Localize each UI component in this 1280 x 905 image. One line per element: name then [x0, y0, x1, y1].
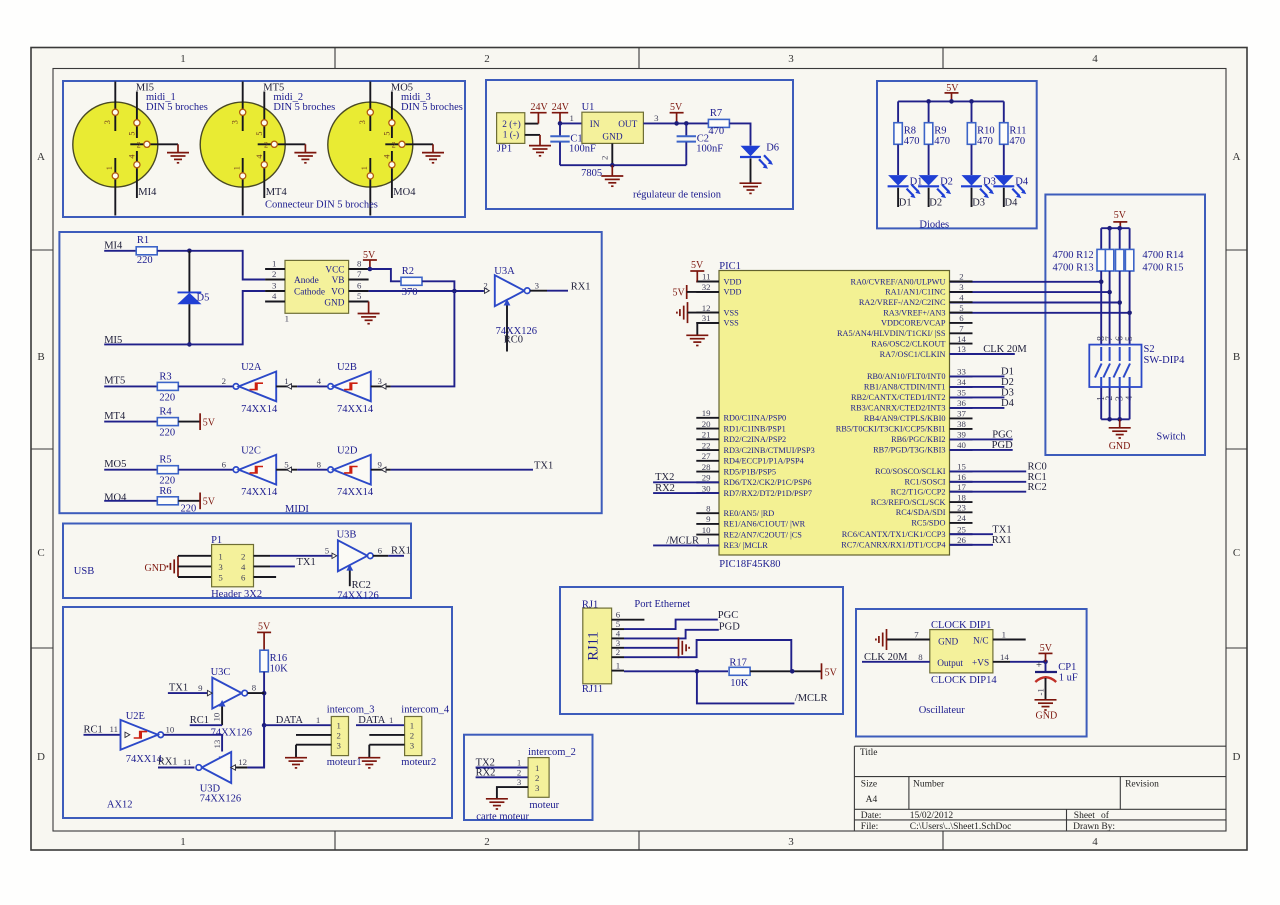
svg-text:2: 2 — [517, 767, 521, 777]
svg-text:3: 3 — [218, 562, 223, 572]
svg-text:intercom_3: intercom_3 — [327, 704, 375, 715]
svg-text:1: 1 — [285, 314, 289, 324]
svg-text:2: 2 — [137, 141, 141, 150]
svg-text:RB2/CANTX/CTED1/INT2: RB2/CANTX/CTED1/INT2 — [851, 393, 946, 402]
svg-text:AX12: AX12 — [107, 800, 133, 811]
svg-text:4: 4 — [1092, 53, 1098, 65]
buffer U3C 74XX126 — [198, 667, 264, 739]
svg-text:DIN 5 broches: DIN 5 broches — [146, 102, 208, 113]
wire RC1 to U2E — [84, 734, 125, 736]
svg-text:RX2: RX2 — [655, 483, 675, 494]
svg-text:VCC: VCC — [325, 266, 344, 276]
wire — [1109, 271, 1111, 345]
capacitor C2 — [684, 121, 689, 126]
svg-text:RE2/AN7/C2OUT/ |CS: RE2/AN7/C2OUT/ |CS — [724, 530, 803, 539]
svg-text:RA3/VREF+/AN3: RA3/VREF+/AN3 — [883, 308, 945, 317]
wire pin14 to 5V and CP1 — [1010, 661, 1046, 663]
resistor R10 — [967, 123, 994, 147]
junction at C1 — [558, 121, 563, 126]
svg-text:470: 470 — [977, 136, 993, 147]
svg-text:DIN 5 broches: DIN 5 broches — [273, 102, 335, 113]
svg-text:5: 5 — [255, 132, 264, 136]
svg-text:5V: 5V — [825, 668, 838, 679]
wire R4 to 5V bar — [178, 421, 200, 423]
svg-text:3: 3 — [517, 777, 522, 787]
svg-text:Header 3X2: Header 3X2 — [211, 589, 262, 600]
svg-text:5: 5 — [959, 303, 964, 313]
svg-text:4: 4 — [241, 562, 246, 572]
svg-text:RC2: RC2 — [1028, 482, 1047, 493]
ground rotated at pin7 — [876, 629, 887, 650]
svg-text:/MCLR: /MCLR — [795, 693, 828, 704]
svg-text:5V: 5V — [203, 497, 216, 508]
svg-text:D3: D3 — [1001, 388, 1014, 399]
svg-text:DIN 5 broches: DIN 5 broches — [401, 102, 463, 113]
svg-text:5V: 5V — [1114, 210, 1127, 221]
svg-text:RC0/SOSCO/SCLKI: RC0/SOSCO/SCLKI — [875, 467, 946, 476]
svg-text:MI4: MI4 — [104, 240, 123, 251]
svg-text:1: 1 — [232, 166, 241, 170]
resistor R6 — [157, 486, 196, 515]
svg-text:MT4: MT4 — [104, 411, 126, 422]
title block texts — [860, 748, 1159, 832]
svg-text:31: 31 — [702, 313, 711, 323]
section box: Port Ethernet — [560, 587, 843, 714]
svg-text:220: 220 — [137, 255, 153, 266]
resistor R1 — [136, 235, 157, 266]
svg-text:74XX126: 74XX126 — [337, 590, 378, 601]
wire MT5 to R3 — [104, 385, 157, 387]
DIN connector midi_3 — [328, 82, 433, 216]
svg-text:MT4: MT4 — [266, 187, 288, 198]
svg-text:U2B: U2B — [337, 362, 357, 373]
svg-text:5: 5 — [383, 132, 392, 136]
svg-text:6: 6 — [357, 281, 362, 291]
svg-text:220: 220 — [159, 392, 175, 403]
svg-text:GND: GND — [938, 637, 958, 647]
svg-text:SW-DIP4: SW-DIP4 — [1144, 355, 1186, 366]
wire — [1129, 271, 1131, 345]
svg-text:RX1: RX1 — [992, 535, 1012, 546]
wire net /MCLR — [653, 544, 719, 546]
svg-text:10K: 10K — [270, 663, 289, 674]
svg-text:Switch: Switch — [1156, 432, 1186, 443]
svg-text:RE3/ |MCLR: RE3/ |MCLR — [724, 541, 769, 550]
wire U2C to U2D — [297, 469, 328, 471]
svg-text:RD0/C1INA/PSP0: RD0/C1INA/PSP0 — [724, 414, 787, 423]
inverter U2C 74XX14 — [222, 446, 298, 499]
wire RX1 to U3D out — [158, 767, 195, 769]
svg-text:21: 21 — [702, 430, 711, 440]
wire VO node down to U2B — [391, 291, 455, 386]
wire MT4 to R4 — [104, 421, 157, 423]
wire — [1119, 387, 1121, 419]
svg-text:4700 R13: 4700 R13 — [1053, 263, 1094, 274]
power port 24V no.1 — [530, 102, 548, 123]
oscillator CLOCK DIP14 — [887, 630, 1026, 673]
svg-text:VB: VB — [332, 276, 345, 286]
resistor labels 4700 R12-R15 — [1053, 250, 1185, 274]
wire U3A out to RX1 — [547, 290, 568, 292]
svg-text:P1: P1 — [211, 535, 222, 546]
svg-text:23: 23 — [957, 503, 966, 513]
svg-text:GND: GND — [1036, 711, 1058, 722]
wire MI5 to optocoupler pin3 — [104, 291, 265, 344]
svg-text:4: 4 — [317, 376, 322, 386]
svg-text:2 (+): 2 (+) — [502, 119, 520, 130]
svg-text:Date:: Date: — [861, 811, 882, 821]
zone ticks top — [335, 48, 943, 69]
svg-text:24V: 24V — [552, 102, 570, 113]
wire R1 to optocoupler pin2 — [157, 251, 265, 280]
svg-text:moteur2: moteur2 — [401, 757, 436, 768]
wire CLK 20M to pin8 — [862, 661, 930, 663]
svg-text:30: 30 — [702, 483, 711, 493]
svg-text:GND: GND — [1109, 441, 1131, 452]
LED D4 — [993, 175, 1029, 198]
svg-text:74XX14: 74XX14 — [241, 404, 278, 415]
svg-text:Revision: Revision — [1125, 780, 1159, 790]
svg-text:40: 40 — [957, 440, 966, 450]
wire net RC2 — [950, 491, 1027, 493]
resistor R5 — [157, 455, 178, 487]
svg-text:RJ1: RJ1 — [582, 600, 598, 611]
svg-text:midi_2: midi_2 — [273, 92, 303, 103]
wire net PGC — [950, 438, 1013, 440]
power port 5V — [945, 83, 960, 101]
svg-text:PGD: PGD — [992, 440, 1013, 451]
buffer U3A 74XX126 — [483, 266, 547, 352]
svg-text:U3B: U3B — [337, 530, 357, 541]
wire D6 to ground — [750, 158, 752, 183]
svg-text:Oscillateur: Oscillateur — [919, 705, 966, 716]
svg-text:2: 2 — [264, 141, 268, 150]
svg-text:1: 1 — [570, 113, 574, 123]
svg-text:1: 1 — [389, 715, 393, 725]
wire — [1003, 188, 1005, 207]
section box: Switch — [1045, 195, 1205, 456]
svg-text:35: 35 — [957, 388, 966, 398]
wire MO5 to R5 — [104, 469, 157, 471]
header intercom_2 — [510, 757, 549, 797]
header intercom_3 — [296, 717, 349, 756]
svg-text:1: 1 — [218, 551, 222, 561]
inverter U2E 74XX14 — [110, 711, 175, 765]
svg-text:U2C: U2C — [241, 446, 261, 457]
svg-text:MO5: MO5 — [104, 459, 126, 470]
svg-text:D2: D2 — [1001, 377, 1014, 388]
svg-text:2: 2 — [410, 731, 414, 741]
ground at optocoupler GND pin — [358, 302, 380, 324]
buffer U3B 74XX126 — [325, 530, 389, 602]
svg-text:11: 11 — [702, 272, 710, 282]
svg-text:470: 470 — [934, 136, 950, 147]
svg-text:370: 370 — [402, 287, 418, 298]
svg-text:Diodes: Diodes — [919, 219, 949, 230]
svg-text:RX1: RX1 — [391, 545, 411, 556]
zone numbers bottom — [180, 836, 1098, 848]
svg-text:6: 6 — [1115, 336, 1126, 341]
wire GND to P1 pins — [178, 556, 212, 577]
wire top bus — [1101, 227, 1129, 229]
svg-text:12: 12 — [702, 303, 711, 313]
svg-text:5V: 5V — [670, 102, 683, 113]
svg-text:DATA: DATA — [358, 715, 386, 726]
svg-text:IN: IN — [590, 120, 600, 130]
svg-text:74XX126: 74XX126 — [200, 794, 241, 805]
svg-text:+VS: +VS — [972, 659, 989, 669]
wire net D1 — [950, 375, 1005, 377]
svg-text:5: 5 — [325, 546, 330, 556]
svg-text:1: 1 — [360, 166, 369, 170]
svg-text:D4: D4 — [1001, 398, 1015, 409]
svg-text:carte moteur: carte moteur — [476, 812, 529, 823]
svg-text:RA2/VREF-/AN2/C2INC: RA2/VREF-/AN2/C2INC — [859, 298, 946, 307]
svg-text:VO: VO — [331, 288, 345, 298]
DIN connector midi_1 — [73, 82, 178, 216]
ground below D6 — [740, 183, 762, 193]
svg-text:5: 5 — [284, 459, 289, 469]
wire P1 pin2 to U3B — [270, 555, 332, 557]
section box: Oscillateur — [856, 609, 1087, 737]
zone ticks right — [1226, 250, 1247, 648]
svg-text:2: 2 — [483, 281, 487, 291]
ground below U1 — [601, 165, 623, 186]
svg-text:7: 7 — [959, 324, 964, 334]
svg-text:USB: USB — [74, 566, 94, 577]
svg-text:RJ11: RJ11 — [582, 684, 603, 695]
header P1 3X2 — [212, 545, 277, 587]
svg-text:D2: D2 — [929, 198, 942, 209]
svg-text:1: 1 — [272, 259, 276, 269]
svg-text:GND: GND — [324, 298, 344, 308]
svg-text:3: 3 — [358, 120, 367, 124]
gnd bus wire — [560, 164, 686, 166]
LED D3 — [961, 175, 996, 198]
capacitor CP1 polarized — [1035, 660, 1078, 700]
svg-text:GND: GND — [602, 133, 622, 143]
svg-text:10K: 10K — [730, 678, 749, 689]
svg-text:4: 4 — [128, 155, 137, 159]
svg-text:RC6/CANTX/TX1/CK1/CCP3: RC6/CANTX/TX1/CK1/CCP3 — [842, 530, 946, 539]
svg-text:7: 7 — [1105, 336, 1115, 341]
wire pin4 to PGD — [624, 630, 719, 639]
svg-text:Port Ethernet: Port Ethernet — [634, 599, 690, 610]
wire pin3 to ground — [624, 647, 679, 649]
resistor R11 — [1000, 123, 1027, 147]
svg-text:4: 4 — [255, 155, 264, 159]
svg-text:régulateur de tension: régulateur de tension — [633, 189, 722, 200]
svg-text:5V: 5V — [203, 417, 216, 428]
svg-text:2: 2 — [484, 53, 490, 65]
svg-text:11: 11 — [110, 724, 118, 734]
wire — [1100, 228, 1102, 249]
svg-text:32: 32 — [702, 282, 711, 292]
svg-text:RX1: RX1 — [571, 282, 591, 293]
svg-text:470: 470 — [904, 136, 920, 147]
svg-text:RC0: RC0 — [1028, 462, 1047, 473]
svg-text:18: 18 — [957, 492, 966, 502]
svg-text:4700 R14: 4700 R14 — [1142, 250, 1184, 261]
resistor R17 10K — [729, 658, 750, 689]
svg-text:1: 1 — [616, 661, 620, 671]
wire R17 to 5V — [750, 670, 821, 672]
wire net TX1 — [950, 533, 994, 535]
svg-text:1: 1 — [517, 757, 521, 767]
svg-text:2: 2 — [959, 272, 963, 282]
inverter U2D 74XX14 — [317, 446, 391, 499]
svg-text:intercom_4: intercom_4 — [401, 704, 450, 715]
zone letters right — [1233, 151, 1241, 763]
svg-text:Drawn By:: Drawn By: — [1073, 822, 1115, 832]
wire /MCLR — [697, 671, 795, 703]
svg-text:3: 3 — [103, 120, 112, 124]
svg-text:100nF: 100nF — [569, 144, 596, 155]
svg-text:RC0: RC0 — [504, 335, 523, 346]
wire 5V bus — [898, 100, 1004, 102]
svg-text:74XX14: 74XX14 — [337, 487, 374, 498]
svg-text:RC1/SOSCI: RC1/SOSCI — [904, 478, 945, 487]
svg-text:RC1: RC1 — [84, 724, 103, 735]
svg-text:PGC: PGC — [992, 430, 1012, 441]
section box: Diodes — [877, 81, 1037, 228]
svg-text:RB5/T0CKI/T3CKI/CCP5/KBI1: RB5/T0CKI/T3CKI/CCP5/KBI1 — [836, 425, 946, 434]
diode D5 — [177, 251, 209, 345]
svg-text:74XX14: 74XX14 — [241, 487, 278, 498]
connector RJ1 RJ11 — [583, 608, 645, 684]
svg-text:TX2: TX2 — [655, 472, 674, 483]
svg-text:B: B — [1233, 351, 1240, 363]
regulator U1 7805 — [582, 112, 644, 165]
svg-text:R2: R2 — [402, 266, 414, 277]
wire — [971, 145, 973, 175]
section box: USB — [63, 524, 411, 599]
svg-text:Size: Size — [861, 780, 877, 790]
resistor R16 10K — [260, 650, 288, 674]
svg-text:15/02/2012: 15/02/2012 — [910, 811, 954, 821]
svg-text:470: 470 — [1009, 136, 1025, 147]
wire DATA to intercom_4 — [356, 724, 405, 726]
wire — [1129, 228, 1131, 249]
svg-text:R6: R6 — [159, 486, 171, 497]
svg-text:D3: D3 — [972, 198, 985, 209]
svg-text:intercom_2: intercom_2 — [528, 747, 576, 758]
svg-text:Cathode: Cathode — [294, 288, 325, 298]
svg-text:10: 10 — [212, 712, 222, 721]
power port 5V bar — [200, 493, 216, 510]
svg-text:midi_1: midi_1 — [146, 92, 176, 103]
resistor R2 — [401, 266, 422, 298]
svg-text:1: 1 — [316, 715, 320, 725]
resistor R7 — [708, 119, 729, 127]
svg-text:2: 2 — [600, 156, 610, 160]
wire — [928, 188, 930, 207]
svg-text:VDD: VDD — [724, 288, 742, 297]
resistor R4 — [157, 407, 178, 439]
wire R3 to U2A out — [178, 385, 233, 387]
svg-text:D4: D4 — [1015, 176, 1029, 187]
svg-text:GND: GND — [145, 563, 167, 574]
svg-text:midi_3: midi_3 — [401, 92, 431, 103]
ground at VSS pin31 — [686, 323, 719, 346]
svg-text:7805: 7805 — [581, 168, 602, 179]
svg-text:R17: R17 — [729, 658, 747, 669]
wire — [1109, 387, 1111, 419]
resistor R3 — [157, 371, 178, 403]
svg-text:Anode: Anode — [294, 276, 319, 286]
svg-text:4700 R12: 4700 R12 — [1053, 250, 1094, 261]
wire — [928, 145, 930, 175]
svg-text:RX1: RX1 — [158, 757, 178, 768]
svg-text:2: 2 — [392, 141, 396, 150]
svg-text:3: 3 — [231, 120, 240, 124]
svg-text:U2A: U2A — [241, 362, 262, 373]
zone ticks left — [31, 250, 53, 648]
svg-text:1: 1 — [284, 376, 288, 386]
svg-text:RB4/AN9/CTPLS/KBI0: RB4/AN9/CTPLS/KBI0 — [864, 414, 946, 423]
ground of midi_1 — [167, 144, 189, 163]
svg-text:U3C: U3C — [211, 667, 231, 678]
svg-text:1: 1 — [337, 721, 341, 731]
svg-text:5: 5 — [128, 132, 137, 136]
svg-text:5V: 5V — [691, 260, 704, 271]
power port 5V — [1113, 210, 1127, 228]
svg-text:RC3/REFO/SCL/SCK: RC3/REFO/SCL/SCK — [871, 498, 946, 507]
svg-text:RD1/C1INB/PSP1: RD1/C1INB/PSP1 — [724, 424, 786, 433]
svg-text:24V: 24V — [531, 102, 549, 113]
svg-text:74XX14: 74XX14 — [337, 404, 374, 415]
optocoupler — [265, 259, 369, 324]
svg-text:5: 5 — [218, 573, 223, 583]
svg-text:8: 8 — [317, 459, 322, 469]
svg-text:12: 12 — [238, 757, 247, 767]
wire net TX2 — [653, 481, 719, 483]
svg-text:D5: D5 — [197, 293, 210, 304]
svg-text:R1: R1 — [137, 235, 149, 246]
svg-text:PIC1: PIC1 — [719, 261, 741, 272]
svg-text:5V: 5V — [258, 622, 271, 633]
wire — [928, 101, 930, 122]
section box: carte moteur — [464, 735, 593, 820]
svg-text:File:: File: — [861, 822, 878, 832]
inverter U2B 74XX14 — [317, 362, 391, 415]
svg-text:14: 14 — [1000, 652, 1009, 662]
svg-text:RC4/SDA/SDI: RC4/SDA/SDI — [896, 508, 946, 517]
LED D2 — [918, 175, 953, 198]
svg-text:R4: R4 — [159, 407, 172, 418]
svg-text:R7: R7 — [710, 108, 722, 119]
svg-text:A: A — [37, 151, 45, 163]
svg-text:RE1/AN6/C1OUT/ |WR: RE1/AN6/C1OUT/ |WR — [724, 520, 806, 529]
power port 5V above VCC — [363, 250, 377, 269]
wire U3D in from column — [247, 725, 264, 767]
svg-text:VDD: VDD — [724, 277, 742, 286]
svg-text:9: 9 — [706, 514, 711, 524]
wire — [971, 101, 973, 122]
svg-text:6: 6 — [378, 545, 383, 555]
svg-text:MI4: MI4 — [138, 187, 157, 198]
svg-text:39: 39 — [957, 430, 966, 440]
capacitor C1 — [550, 123, 569, 165]
svg-text:74XX126: 74XX126 — [211, 728, 252, 739]
wire — [1119, 271, 1121, 345]
svg-text:3: 3 — [410, 740, 415, 750]
svg-text:7: 7 — [357, 269, 362, 279]
microcontroller PIC1 PIC18F45K80 — [696, 271, 972, 556]
wire VO to U3A — [369, 290, 484, 292]
svg-text:RD2/C2INA/PSP2: RD2/C2INA/PSP2 — [724, 435, 787, 444]
zone letters left — [37, 151, 45, 763]
